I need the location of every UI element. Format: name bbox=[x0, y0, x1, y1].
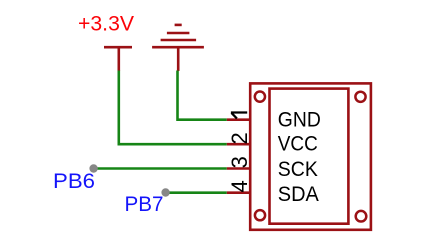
svg-text:PB6: PB6 bbox=[53, 170, 95, 193]
mounting hole bottom-right bbox=[356, 211, 367, 222]
pin 1 stub bbox=[227, 118, 252, 121]
svg-text:VCC: VCC bbox=[278, 133, 318, 156]
wire end dot PB6 bbox=[89, 164, 97, 172]
pin 3 stub bbox=[227, 167, 252, 170]
pin number 1 bbox=[231, 113, 247, 119]
svg-text:4: 4 bbox=[227, 180, 252, 192]
svg-text:SCK: SCK bbox=[278, 158, 318, 181]
connector U1 inner body bbox=[270, 89, 349, 224]
wire end dot PB7 bbox=[161, 188, 169, 196]
connector U1 outer body bbox=[250, 83, 371, 229]
svg-text:PB7: PB7 bbox=[125, 193, 164, 216]
mounting hole top-left bbox=[255, 92, 265, 102]
wire GND net to pin 1 bbox=[178, 71, 227, 120]
svg-text:SDA: SDA bbox=[278, 183, 319, 206]
svg-text:GND: GND bbox=[278, 109, 321, 132]
wire +3.3V net to pin 2 bbox=[119, 71, 227, 145]
power flag +3.3V symbol bbox=[104, 47, 132, 71]
svg-text:+3.3V: +3.3V bbox=[78, 12, 134, 35]
pin 4 stub bbox=[227, 191, 252, 194]
wire PB7 net to pin 4 bbox=[166, 191, 227, 194]
pin 2 stub bbox=[227, 143, 252, 146]
svg-text:3: 3 bbox=[227, 156, 252, 168]
mounting hole top-right bbox=[355, 92, 365, 102]
ground symbol bbox=[152, 25, 204, 71]
svg-text:2: 2 bbox=[227, 132, 252, 144]
mounting hole bottom-left bbox=[255, 210, 265, 220]
wire PB6 net to pin 3 bbox=[94, 167, 227, 170]
